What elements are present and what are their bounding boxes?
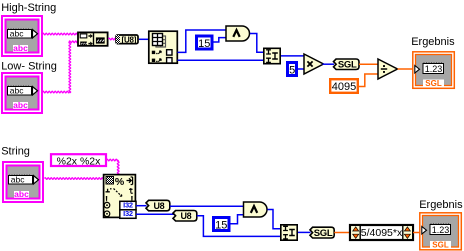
svg-text:abc: abc (14, 189, 29, 199)
label String (1, 146, 30, 158)
wire Low-String to Concatenate Strings (43, 41, 78, 93)
svg-text:5/4095*x: 5/4095*x (361, 227, 403, 239)
svg-text:U8: U8 (180, 211, 191, 221)
svg-text:abc: abc (13, 43, 28, 53)
svg-text:15: 15 (215, 219, 227, 231)
wire index element 1 to Join Numbers (178, 59, 264, 61)
svg-text:abc: abc (10, 29, 24, 39)
divide node (378, 59, 398, 79)
wire AND to Join Numbers (250, 34, 263, 53)
string control High-String (2, 16, 42, 56)
text 15 (top) (198, 38, 210, 50)
wire AND to Join (bottom) (268, 210, 281, 229)
svg-text:1.23: 1.23 (425, 64, 443, 74)
svg-text:1.23: 1.23 (432, 225, 450, 235)
svg-text:abc: abc (13, 100, 28, 110)
multiply node (304, 54, 324, 74)
numeric constant 15 (bottom) (214, 218, 230, 231)
join numbers node (bottom) (281, 225, 297, 240)
label Ergebnis (top) (411, 36, 455, 48)
numeric constant 15 (197, 36, 213, 49)
wire format string to Scan From String (107, 159, 120, 174)
wire SGL to divide (359, 63, 379, 65)
wire High-String to Concatenate Strings (43, 33, 78, 35)
label Low- String (1, 61, 57, 73)
svg-text:I32: I32 (123, 209, 133, 218)
wire U8-1 to AND (170, 205, 244, 207)
wire String to Scan From String (45, 178, 104, 180)
svg-text:SGL: SGL (425, 79, 442, 88)
svg-text:SGL: SGL (432, 241, 449, 250)
svg-text:U8: U8 (153, 201, 164, 211)
scan from string node (104, 175, 136, 219)
numeric indicator Ergebnis (top) (413, 52, 455, 89)
svg-text:Ergebnis: Ergebnis (419, 199, 463, 211)
AND function (top) (226, 26, 250, 41)
svg-text:String: String (1, 146, 30, 158)
wire divide to Ergebnis (398, 68, 414, 70)
string control String (3, 162, 43, 202)
to-SGL conversion node (top) (334, 59, 360, 71)
wire multiply to SGL (323, 63, 335, 65)
wire U8-2 to Join (bottom) (197, 216, 280, 237)
svg-text:%2x %2x: %2x %2x (57, 155, 102, 167)
wire Concatenate to String-to-Byte-Array (109, 38, 117, 40)
wire SGL to expression node (334, 232, 350, 234)
numeric constant 4095 (330, 79, 358, 93)
label Ergebnis (bottom) (419, 199, 463, 211)
svg-text:SGL: SGL (314, 228, 333, 239)
svg-text:[U8]: [U8] (122, 35, 137, 44)
svg-text:Low- String: Low- String (1, 61, 57, 73)
wire 5 to multiply (298, 68, 305, 70)
index array node (149, 31, 178, 63)
svg-text:15: 15 (198, 38, 210, 50)
string constant %2x %2x (51, 154, 106, 167)
to-U8 conversion node 1 (146, 200, 170, 211)
string-to-byte-array node (116, 35, 138, 45)
wire index element 0 to AND (178, 30, 227, 52)
svg-text:abc: abc (10, 86, 24, 96)
wire 15 to AND (bottom) (230, 215, 245, 224)
to-U8 conversion node 2 (173, 211, 197, 222)
wire 15 to AND (214, 38, 227, 42)
text 15 (bottom) (215, 219, 227, 231)
wire join to multiply (281, 55, 304, 57)
svg-text:abc: abc (11, 175, 25, 185)
wire join to SGL (bottom) (298, 231, 311, 233)
numeric indicator Ergebnis (bottom) (420, 213, 462, 250)
svg-text:SGL: SGL (338, 60, 357, 71)
svg-text:4095: 4095 (332, 81, 356, 93)
svg-text:Ergebnis: Ergebnis (411, 36, 455, 48)
join numbers node (top) (264, 48, 280, 63)
svg-text:5: 5 (289, 64, 295, 76)
text 5 (289, 64, 295, 76)
concatenate strings node (78, 32, 108, 47)
wire scan output 1 to U8 (136, 205, 147, 207)
AND function (bottom) (244, 202, 268, 217)
wire 4095 to divide (359, 74, 379, 87)
wire byte array to Index Array (139, 38, 148, 40)
label High-String (1, 2, 56, 14)
to-SGL conversion node (bottom) (310, 227, 334, 239)
wire scan output 2 to U8 (136, 213, 174, 215)
wire expression to Ergebnis (bottom) (413, 232, 420, 234)
numeric constant 5 (288, 63, 297, 76)
expression node 5/4095*x (350, 225, 413, 240)
svg-text:High-String: High-String (1, 2, 56, 14)
string control Low- String (2, 73, 42, 113)
svg-text:%: % (115, 176, 125, 188)
svg-text:!: ! (105, 195, 108, 206)
